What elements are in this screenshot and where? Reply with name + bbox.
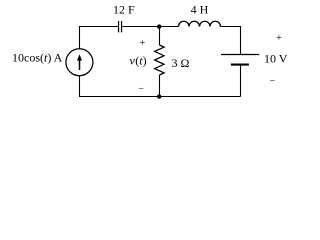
wire: resistor top lead: [159, 27, 161, 46]
inductor L1: [179, 21, 221, 26]
svg-text:−: −: [269, 76, 275, 87]
wire: inductor to top-right corner, down to battery: [221, 27, 241, 54]
current source I1 circle: [66, 49, 93, 76]
wire: bottom rail: [80, 76, 241, 97]
svg-text:−: −: [138, 83, 144, 94]
voltage source V1 battery long plate: [221, 54, 259, 56]
wire: resistor bottom lead: [159, 75, 161, 97]
node B (bottom junction): [157, 94, 161, 98]
resistor R1 zigzag: [155, 45, 164, 75]
svg-text:3 Ω: 3 Ω: [172, 56, 190, 70]
voltage source V1 battery short plate: [231, 64, 249, 66]
svg-text:12 F: 12 F: [113, 2, 135, 16]
wire: top-left corner to capacitor: [80, 27, 119, 49]
svg-text:+: +: [140, 38, 146, 49]
capacitor C1 plates: [119, 21, 122, 32]
svg-text:+: +: [276, 33, 282, 44]
wire: battery bottom to bottom-right corner: [240, 66, 242, 97]
svg-text:10cos(t) A: 10cos(t) A: [12, 50, 63, 64]
svg-text:10 V: 10 V: [264, 52, 288, 66]
node A (top junction): [157, 24, 161, 28]
wire: capacitor to top node to inductor: [122, 26, 178, 28]
svg-text:(t): (t): [135, 54, 146, 68]
svg-text:4 H: 4 H: [191, 2, 209, 16]
current source I1 arrow: [77, 54, 82, 70]
